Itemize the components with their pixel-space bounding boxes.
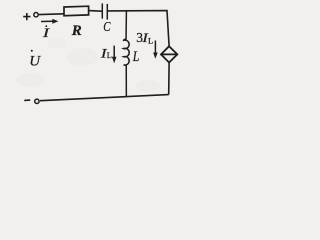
svg-text:R: R <box>71 23 82 39</box>
svg-text:U: U <box>29 53 41 69</box>
svg-text:L: L <box>148 35 153 45</box>
svg-text:L: L <box>132 48 140 64</box>
svg-text:C: C <box>103 19 111 34</box>
svg-text:I: I <box>42 26 50 40</box>
svg-text:L: L <box>107 50 112 60</box>
